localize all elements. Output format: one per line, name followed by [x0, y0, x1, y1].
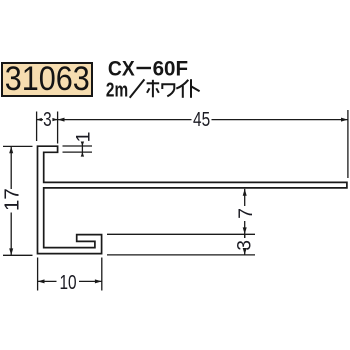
- dimension 3 (bottom) extension lines: [107, 234, 255, 255]
- dimension 17 arrowheads: [9, 146, 13, 255]
- dimension 3 (top) extension lines: [37, 112, 58, 144]
- dimension 3 (top) text: [43, 108, 52, 131]
- dimension 45 dim line: [58, 119, 348, 121]
- svg-text:7: 7: [235, 208, 257, 219]
- product code box 31063: [1, 62, 93, 97]
- dimension 3 (bottom) dim line stub and arrowhead: [244, 234, 246, 255]
- title 60F part: [153, 57, 188, 80]
- dimension 1 arrowheads: [81, 142, 84, 157]
- svg-text:3: 3: [235, 240, 256, 251]
- fullwidth slash: [130, 79, 145, 97]
- svg-text:45: 45: [193, 108, 210, 131]
- dimension 3 (top) arrowheads: [37, 118, 58, 121]
- subtitle slash + katakana howaito: [130, 79, 200, 98]
- title dash: [137, 67, 152, 69]
- dimension 17 extension lines: [3, 146, 33, 255]
- dimension 17 dim line: [10, 146, 12, 255]
- katakana to: [190, 79, 192, 98]
- dimension 45 arrowheads: [58, 118, 348, 122]
- svg-text:17: 17: [1, 188, 24, 211]
- dimension 45 text: [193, 108, 210, 131]
- dimension 17 text: [1, 188, 24, 211]
- dimension 3 (bottom) text: [235, 240, 256, 251]
- katakana ho: [147, 82, 160, 84]
- profile outline (cross-section with flange): [38, 146, 347, 253]
- svg-text:3: 3: [43, 108, 52, 131]
- dimension 45 extension line: [347, 110, 349, 178]
- katakana wa: [162, 84, 174, 96]
- svg-text:1: 1: [73, 132, 95, 143]
- dimension 1 (lip thickness) leader lines: [63, 142, 93, 157]
- svg-text:10: 10: [59, 271, 76, 294]
- dimension 10 arrowheads: [38, 279, 102, 283]
- dimension 7 arrowheads: [243, 189, 247, 235]
- dimension 7 dim line: [244, 189, 246, 238]
- dimension 3 (top) dim line: [37, 119, 58, 121]
- dimension 10 text: [59, 271, 76, 294]
- title CX part: [108, 58, 135, 81]
- subtitle 2m: [106, 78, 128, 101]
- dimension 10 dim line: [38, 280, 102, 282]
- dimension 7 text: [235, 208, 257, 219]
- dimension 1 text: [73, 132, 95, 143]
- katakana i: [176, 80, 188, 89]
- dimension 10 extension lines: [38, 258, 102, 291]
